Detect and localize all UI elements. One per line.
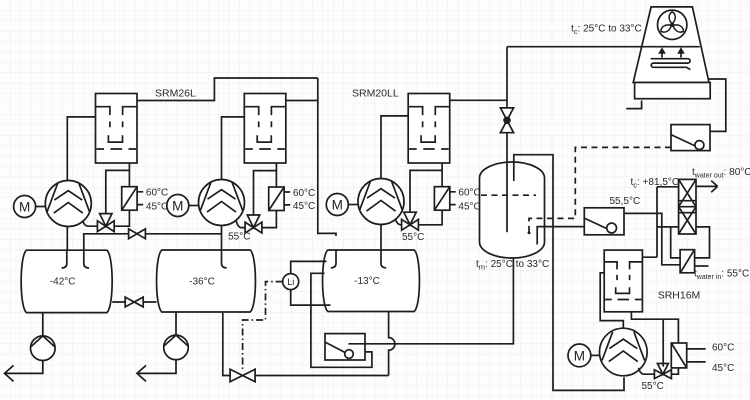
evaporative condenser housing (633, 7, 709, 83)
motor M4 (motor) (568, 344, 591, 367)
svg-text:SRM20LL: SRM20LL (352, 88, 399, 100)
wire: cooler3 water stubs (450, 192, 456, 205)
oil separator (SRH16M) (604, 250, 642, 312)
oil cooler unit3 (oil cooler) (434, 187, 449, 211)
wire: motor4 link (591, 354, 600, 356)
receiver liquid level (dashed) (481, 194, 536, 196)
svg-text:60°C: 60°C (293, 188, 315, 199)
valve oil 3-way SRH16M (3-way oil valve) (654, 364, 671, 379)
svg-text:55°C: 55°C (402, 232, 424, 243)
wire: -36C vessel to pump2 (175, 312, 177, 335)
svg-text:-13°C: -13°C (354, 276, 380, 287)
oil separator (SRM20LL) (408, 94, 450, 164)
wire: valve2 to cooler2 bottom (262, 211, 277, 228)
svg-text:45°C: 45°C (293, 201, 315, 212)
svg-text:tm: 25°C to 33°C: tm: 25°C to 33°C (476, 259, 549, 272)
svg-text:55,5°C: 55,5°C (610, 196, 641, 207)
wire: riser to receiver (506, 47, 508, 165)
wire: motor link (36, 206, 46, 208)
svg-text:tc: 25°C to 33°C: tc: 25°C to 33°C (571, 24, 642, 37)
svg-text:60°C: 60°C (712, 342, 734, 353)
spray arrows (661, 52, 663, 58)
svg-text:SRH16M: SRH16M (658, 290, 701, 302)
valve equalization (125, 297, 143, 307)
valve oil 3-way unit3 (3-way oil valve) (402, 212, 419, 230)
heat exchanger 55.5C subcooler (584, 208, 624, 235)
wire: valve4 to cooler4 bottom (671, 368, 678, 374)
oil separator (SRM26L #1) (96, 94, 138, 164)
wire: separator2 oil drain (254, 163, 277, 215)
receiver vessel (480, 162, 545, 258)
svg-text:-36°C: -36°C (189, 276, 215, 287)
wire: water in stub (695, 265, 709, 267)
wire: C3 oil return elbow (395, 219, 401, 225)
wire: C1 suction pipe into -42C vessel (66, 226, 68, 250)
wire: -36C drain to expansion valve (223, 312, 230, 376)
wire: pump2 outlet to cold consumer (137, 360, 176, 374)
wire: valve3 to cooler3 bottom (418, 210, 442, 225)
svg-text:M: M (19, 199, 30, 214)
wire: receiver liquid to float feed (365, 256, 513, 344)
svg-text:tc: +81,5°C: tc: +81,5°C (631, 177, 680, 190)
fan blades (659, 12, 685, 34)
svg-text:60°C: 60°C (458, 188, 480, 199)
valve oil 3-way unit2 (3-way oil valve) (245, 215, 262, 233)
wire: receiver liquid takeoff to 55.5C subcooler (537, 227, 584, 245)
motor M2 (motor) (167, 195, 189, 217)
dip tube C1 suction (62, 250, 67, 268)
svg-text:-42°C: -42°C (50, 277, 76, 288)
svg-text:45°C: 45°C (712, 363, 734, 374)
wire: spray header inside condenser (642, 46, 700, 48)
wire: C4 oil return elbow (639, 368, 655, 374)
vessel -36C (157, 250, 256, 312)
svg-text:45°C: 45°C (146, 201, 168, 212)
compressor C1 (screw compressor) (45, 181, 91, 227)
motor M1 (motor) (14, 196, 36, 218)
wire: motor3 link (348, 204, 358, 206)
wire: C2 suction pipe into -36C vessel (221, 225, 223, 250)
wire: cooler water stubs (137, 192, 143, 205)
wire: -42C vessel to pump1 (42, 312, 44, 336)
valve receiver inlet (valve in vertical line, with ball) (500, 108, 513, 133)
arrow cold glycol -42C (flow arrow to external circuit) (5, 365, 14, 381)
wire: Li standpipe bottom (291, 290, 331, 306)
wire: C1 oil return elbow (83, 220, 98, 226)
svg-text:55°C: 55°C (228, 232, 250, 243)
compressor C4 (screw compressor) (600, 328, 648, 376)
heat exchanger oil heat recovery bottom (680, 250, 695, 273)
compressor C2 (screw compressor) (199, 180, 245, 226)
wire: separator oil drain to cooler (106, 163, 130, 214)
svg-text:Li: Li (287, 277, 294, 287)
svg-text:M: M (172, 198, 183, 213)
wire: receiver vapor takeoff to SRH16M suction (514, 155, 624, 391)
heat exchanger float feed -13C (325, 334, 365, 360)
svg-text:55°C: 55°C (642, 381, 664, 392)
instrument Li level indicator (283, 274, 299, 290)
svg-text:SRM26L: SRM26L (155, 88, 196, 100)
wire: C2 oil return elbow (236, 220, 245, 228)
wire: compressor C3 discharge riser to separator inlet (381, 116, 408, 180)
wire: condensate drop leg (708, 79, 726, 131)
wire: condenser basin drain (626, 101, 641, 109)
dip tube cascade inlet -13C (331, 250, 336, 268)
wire: subcooler outlet to oil cooler stack (624, 213, 680, 264)
wire: condenser feed line (507, 46, 700, 48)
wire: SRM26L #1 discharge to cascade drop (137, 78, 318, 101)
wire: cascade drop line into -13C vessel (318, 78, 336, 236)
wire: valve to cooler bottom (114, 210, 129, 226)
oil cooler unit1 (oil cooler) (122, 187, 137, 211)
pump P2 (pump) (164, 335, 189, 360)
oil separator (SRM26L #2) (244, 94, 285, 164)
wire: separator4 discharge to heat recovery stack (642, 187, 678, 257)
wire: motor2 link (189, 205, 199, 207)
arrow cold glycol -36C (flow arrow to external circuit) (137, 365, 146, 381)
wire: Li standpipe top (291, 261, 327, 273)
svg-text:60°C: 60°C (146, 188, 168, 199)
wire: SRM26L #2 discharge (286, 100, 318, 102)
wire: HX loop to -13C vessel (311, 273, 372, 367)
wire: liquid feed into -42C vessel (84, 234, 222, 250)
signal: Li to expansion valve (dash-dot) (243, 282, 283, 369)
wire: compressor C2 discharge riser to separator inlet (222, 117, 245, 181)
vessel -13C (323, 250, 420, 312)
wire: cooler4 water stubs (687, 349, 706, 362)
dip tube C2 suction (222, 250, 227, 268)
wire: stack side pipes (671, 227, 710, 258)
valve expansion -36C (230, 369, 255, 381)
valve feed -42C (129, 229, 146, 239)
svg-text:M: M (332, 197, 343, 212)
svg-text:45°C: 45°C (458, 201, 480, 212)
condenser coil (serpentine) (651, 59, 691, 70)
wire: expansion valve to -13C vessel bottom (with line jump) (255, 311, 395, 375)
wire: C4 discharge riser to separator4 inlet (600, 273, 623, 329)
valve oil 3-way unit1 (3-way oil valve) (97, 214, 114, 232)
vessel -42C (21, 250, 112, 312)
wire: pump1 outlet to cold consumer (5, 361, 43, 374)
wire: C3 suction pipe into -13C vessel (380, 224, 382, 250)
svg-text:M: M (574, 348, 585, 363)
wire: separator3 oil drain (410, 163, 442, 212)
condenser fan (658, 10, 687, 39)
wire: water out with arrow (696, 181, 718, 193)
oil cooler unit2 (oil cooler) (269, 187, 284, 211)
wire: cooler2 water stubs (284, 192, 290, 205)
wire: SRM20LL discharge to condenser riser (450, 99, 507, 101)
signal: condensate float to receiver (dashed) (529, 147, 671, 232)
condenser basin (635, 83, 711, 99)
compressor C3 (screw compressor) (358, 179, 404, 225)
wire: equalization -42C to -36C (112, 301, 156, 303)
dip tube feed -42C (84, 250, 89, 268)
dip tube C3 suction (381, 250, 386, 268)
wire: receiver inlet dip tube (506, 163, 508, 232)
oil cooler SRH16M (oil cooler) (671, 343, 686, 368)
condensate float trap (671, 125, 710, 151)
heat exchanger desuperheater (water heater) (679, 179, 696, 234)
wire: compressor C1 discharge riser to separator inlet (67, 117, 95, 182)
wire: separator4 oil drain (631, 312, 678, 367)
motor M3 (motor) (326, 194, 348, 216)
pump P1 (pump) (31, 336, 56, 361)
